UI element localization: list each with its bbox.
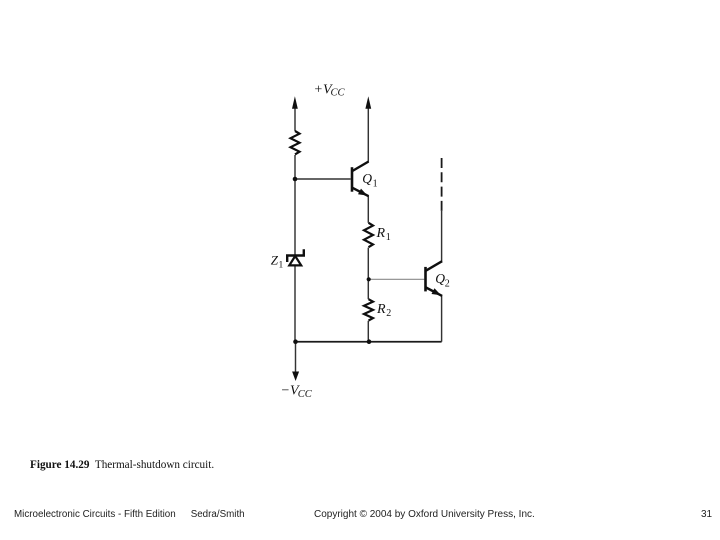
svg-text:CC: CC [298,389,313,400]
svg-text:Q: Q [435,271,445,286]
svg-text:1: 1 [373,178,378,189]
svg-text:2: 2 [386,308,391,319]
svg-text:R: R [376,302,386,317]
svg-text:R: R [376,226,386,241]
svg-text:2: 2 [445,278,450,289]
svg-text:Q: Q [362,171,372,186]
svg-text:CC: CC [331,88,346,99]
svg-text:1: 1 [386,232,391,243]
svg-text:1: 1 [279,260,284,270]
